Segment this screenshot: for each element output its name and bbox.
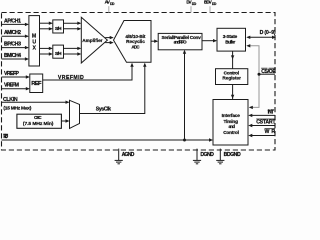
svg-text:DD: DD xyxy=(212,2,217,6)
block 3-State Buffer xyxy=(217,28,246,51)
block Serial/Parallel Conv and FIFO xyxy=(158,33,202,49)
ground AGND xyxy=(115,149,135,164)
wire mux to S/H top (pair) xyxy=(40,22,53,31)
svg-text:DGND: DGND xyxy=(200,152,214,158)
wire mux to S/H bottom (pair) xyxy=(40,47,53,56)
node CSTART xyxy=(248,119,276,127)
svg-text:OSC: OSC xyxy=(34,115,42,120)
sample/hold S/H bottom xyxy=(53,45,64,58)
sample/hold S/H top xyxy=(53,20,64,33)
svg-text:D (0–9): D (0–9) xyxy=(260,30,276,36)
svg-text:3-State: 3-State xyxy=(223,34,238,39)
svg-text:Amplifier: Amplifier xyxy=(82,38,102,43)
mux U1 xyxy=(29,16,40,66)
wire S/H bottom to amplifier (pair) xyxy=(64,47,82,56)
wire ADC to FIFO xyxy=(151,40,158,43)
svg-text:SysClk: SysClk xyxy=(96,107,111,113)
svg-text:BP/CH3: BP/CH3 xyxy=(4,41,21,47)
oscillator OSC xyxy=(17,114,62,128)
svg-text:RD: RD xyxy=(3,134,8,140)
svg-text:VREFP: VREFP xyxy=(4,71,20,77)
svg-text:and FIFO: and FIFO xyxy=(174,40,187,45)
svg-text:REF: REF xyxy=(31,81,42,87)
reference REF xyxy=(30,74,43,93)
wire amplifier to ADC (differential pair) xyxy=(105,36,114,44)
svg-text:VREFM: VREFM xyxy=(4,83,19,89)
net SysClk: clock mux to ADC xyxy=(80,63,147,114)
wire buffer to control register xyxy=(231,51,234,69)
node CS/OE xyxy=(259,68,276,75)
block Interface Timing and Control xyxy=(213,100,248,146)
block Control Register xyxy=(216,69,248,85)
node WR xyxy=(248,129,275,138)
svg-text:Buffer: Buffer xyxy=(225,39,235,44)
node BM/CH4 xyxy=(2,53,29,61)
node CLKIN xyxy=(2,97,70,112)
wire buffer enable (gray) from buffer to interface control xyxy=(246,44,259,109)
node D (0-9) bus xyxy=(246,30,276,39)
net VREFMID: REF to ADC bottom xyxy=(43,63,134,81)
node RD xyxy=(2,134,214,142)
op-amp Amplifier xyxy=(81,17,107,63)
junction RD/FIFO read xyxy=(183,139,186,142)
svg-text:Control: Control xyxy=(223,130,239,135)
power pin DVDD xyxy=(186,0,196,13)
ground BDGND xyxy=(216,149,241,164)
node VREFM xyxy=(2,83,30,91)
power pin AVDD xyxy=(105,0,115,13)
ADC block (4/8/10-Bit Recyclic ADC) xyxy=(114,21,152,63)
svg-text:AM/CH2: AM/CH2 xyxy=(4,30,21,36)
node BP/CH3 xyxy=(2,41,29,49)
wire control register to interface xyxy=(231,85,234,100)
svg-text:DD: DD xyxy=(192,2,197,6)
svg-text:CSTART: CSTART xyxy=(256,119,276,125)
junction CS/OE node xyxy=(258,73,261,76)
chip boundary (dashed border) xyxy=(2,13,276,151)
clock mux (trapezoid) xyxy=(70,100,80,128)
ground DGND xyxy=(193,149,214,164)
svg-text:S/H: S/H xyxy=(55,51,62,56)
node AM/CH2 xyxy=(2,30,29,38)
svg-text:X: X xyxy=(33,45,37,51)
svg-text:AGND: AGND xyxy=(122,152,135,158)
node VREFP xyxy=(2,71,30,79)
power pin BDVDD xyxy=(204,0,217,13)
wire OSC to clock mux xyxy=(61,119,69,122)
svg-text:AP/CH1: AP/CH1 xyxy=(4,18,21,24)
svg-text:S/H: S/H xyxy=(55,26,62,31)
svg-text:ADC: ADC xyxy=(131,44,140,49)
wire S/H top to amplifier (pair) xyxy=(64,22,82,31)
node AP/CH1 xyxy=(2,18,29,26)
svg-text:(15 MHz Max): (15 MHz Max) xyxy=(3,106,31,112)
wire RD to FIFO read input xyxy=(183,50,186,140)
svg-text:and: and xyxy=(229,124,236,129)
svg-text:CS/OE: CS/OE xyxy=(261,69,276,75)
svg-text:DD: DD xyxy=(110,2,115,6)
svg-text:Register: Register xyxy=(222,76,241,81)
svg-text:(7.5 MHz Min): (7.5 MHz Min) xyxy=(23,121,54,127)
svg-text:BM/CH4: BM/CH4 xyxy=(4,53,21,59)
wire FIFO to 3-State Buffer xyxy=(202,39,217,42)
svg-text:BDGND: BDGND xyxy=(224,152,241,158)
svg-text:Interface: Interface xyxy=(222,113,241,118)
node INT xyxy=(248,110,275,117)
